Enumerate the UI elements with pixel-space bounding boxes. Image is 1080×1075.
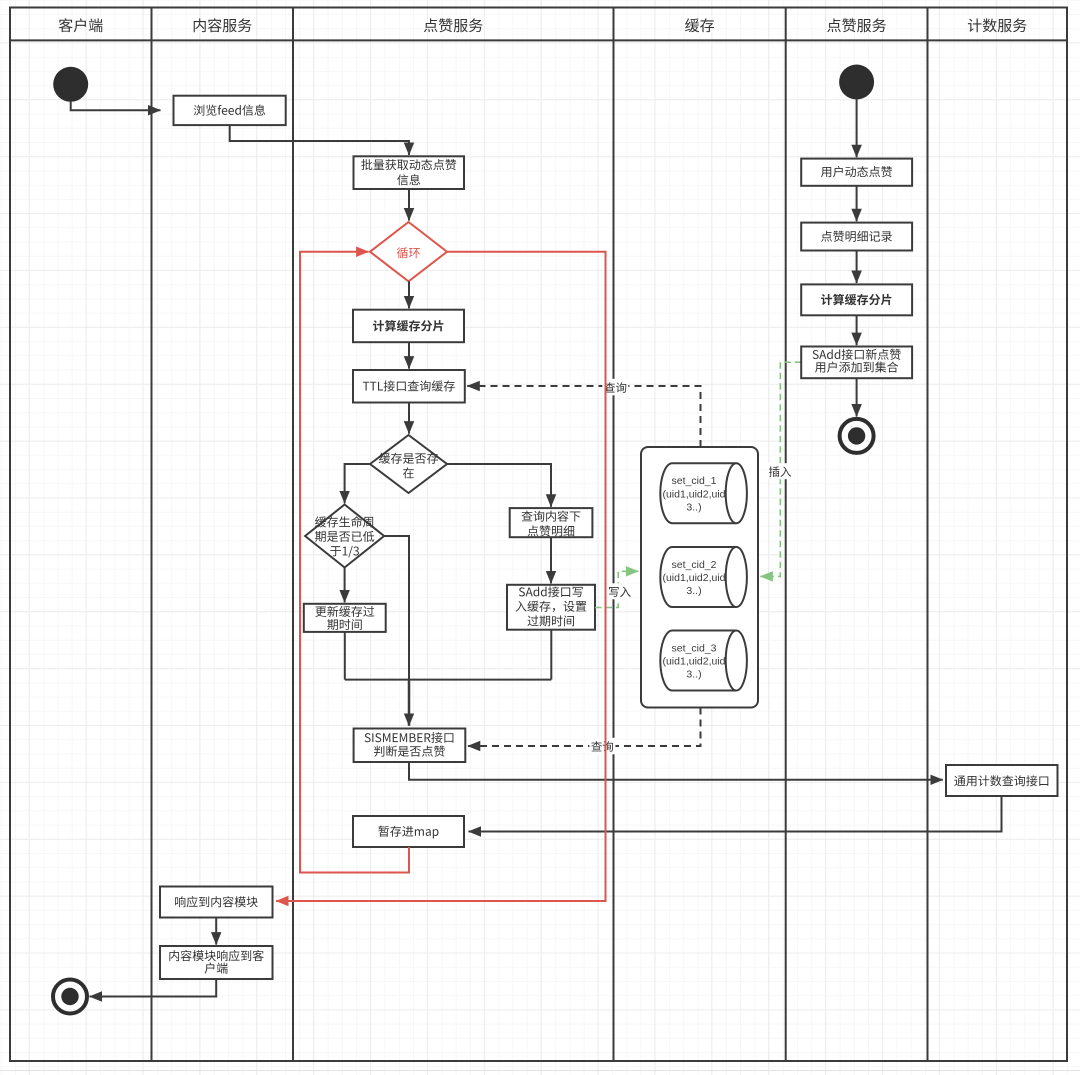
- action box 点赞明细记录: [801, 223, 912, 251]
- wire calc-shard2 to sadd-new: [856, 315, 858, 345]
- lane header 点赞服务: [424, 18, 483, 32]
- svg-text:(uid1,uid2,uid: (uid1,uid2,uid: [662, 656, 725, 668]
- end node (client): [53, 980, 87, 1014]
- dashed query wire cache to TTL: [467, 386, 700, 447]
- action box SAdd接口新点赞用户添加到集合: [801, 347, 912, 379]
- wire loop to calc-shard: [408, 281, 410, 308]
- action box 查询内容下点赞明细: [510, 508, 593, 537]
- wire lifetime to update-expiry: [344, 568, 346, 603]
- svg-text:set_cid_1: set_cid_1: [672, 475, 717, 487]
- wire start to browse-feed: [71, 101, 161, 110]
- wire cache-exists no-branch to lifetime diamond: [345, 464, 370, 503]
- red loop-back wire map to loop diamond: [300, 252, 409, 873]
- cache container rounded box: [641, 447, 758, 708]
- decision diamond 缓存生命周期是否已低于1/3: [305, 505, 384, 568]
- wire batch-get to loop diamond: [408, 189, 410, 221]
- wire browse-feed to batch-get: [230, 125, 409, 155]
- label 插入: [768, 463, 792, 479]
- action box 计算缓存分片 (bold): [353, 310, 464, 343]
- lane header 客户端: [59, 18, 103, 32]
- action box 暂存进map: [353, 816, 464, 847]
- action box 内容模块响应到客户端: [160, 946, 273, 979]
- svg-text:3..): 3..): [686, 501, 701, 513]
- wire counter to map box: [469, 796, 1002, 832]
- decision diamond 循环 (loop): [370, 222, 447, 281]
- wire TTL to cache-exists diamond: [408, 403, 410, 434]
- database cylinder set_cid_2: [660, 547, 747, 607]
- svg-text:3..): 3..): [686, 669, 701, 681]
- action box 更新缓存过期时间: [304, 604, 386, 632]
- wire calc-shard to TTL: [408, 342, 410, 368]
- red loop-exit wire to respond box: [276, 252, 605, 901]
- action box 批量获取动态点赞信息: [354, 156, 465, 189]
- action box SAdd接口写入缓存设置过期时间: [507, 585, 595, 630]
- wire SISMEMBER to counter-service: [409, 762, 943, 780]
- swimlane divider 3: [613, 8, 615, 1062]
- lane header 计数服务: [968, 18, 1027, 32]
- junction wire sadd-write down: [550, 630, 552, 680]
- svg-text:set_cid_3: set_cid_3: [672, 643, 717, 655]
- swimlane divider 5: [927, 8, 929, 1062]
- action box 通用计数查询接口: [946, 765, 1058, 796]
- end node (like service): [840, 419, 874, 453]
- swimlane divider 2: [292, 8, 294, 1062]
- decision diamond 缓存是否存在: [370, 435, 447, 493]
- wire respond to module-respond: [215, 918, 217, 945]
- junction wire horizontal merge: [345, 679, 552, 681]
- action box TTL接口查询缓存: [353, 370, 465, 403]
- green dashed insert wire SAdd-new to cache: [760, 362, 801, 576]
- label 查询 (top): [602, 379, 628, 396]
- swimlane header separator: [10, 39, 1067, 41]
- start node (client): [53, 67, 88, 102]
- dashed query wire cache to SISMEMBER: [468, 708, 701, 747]
- label 查询 (bottom): [589, 738, 615, 755]
- wire merge to SISMEMBER: [408, 680, 411, 726]
- action box SISMEMBER接口判断是否点赞: [354, 729, 466, 763]
- lane header 点赞服务: [827, 18, 886, 32]
- junction wire update-expiry down: [344, 632, 346, 680]
- wire module-respond to end node: [90, 979, 217, 997]
- swimlane divider 4: [785, 8, 787, 1062]
- lane header 缓存: [685, 18, 714, 32]
- wire start to user-like: [856, 99, 858, 157]
- wire sadd-new to end node: [856, 378, 858, 416]
- svg-text:3..): 3..): [686, 585, 701, 597]
- label 写入: [608, 583, 631, 599]
- action box 浏览feed信息: [174, 96, 286, 125]
- wire cache-exists yes-branch to query-likes: [447, 464, 551, 507]
- start node (like service): [839, 65, 874, 100]
- wire user-like to like-detail: [856, 186, 858, 221]
- green dashed write wire SAdd to cache: [595, 571, 638, 607]
- action box 用户动态点赞: [801, 159, 912, 186]
- wire like-detail to calc-shard2: [856, 251, 858, 284]
- action box 计算缓存分片 (bold, right): [801, 284, 912, 315]
- database cylinder set_cid_1: [660, 463, 747, 523]
- wire query-likes to sadd-write: [550, 537, 552, 583]
- wire lifetime yes-branch right: [384, 536, 409, 680]
- swimlane divider 1: [151, 8, 153, 1062]
- svg-text:set_cid_2: set_cid_2: [672, 559, 717, 571]
- lane header 内容服务: [194, 18, 252, 32]
- canvas page edge (bottom): [0, 1070, 1080, 1072]
- svg-text:(uid1,uid2,uid: (uid1,uid2,uid: [662, 572, 725, 584]
- database cylinder set_cid_3: [660, 631, 747, 691]
- action box 响应到内容模块: [160, 887, 273, 918]
- svg-text:(uid1,uid2,uid: (uid1,uid2,uid: [662, 488, 725, 500]
